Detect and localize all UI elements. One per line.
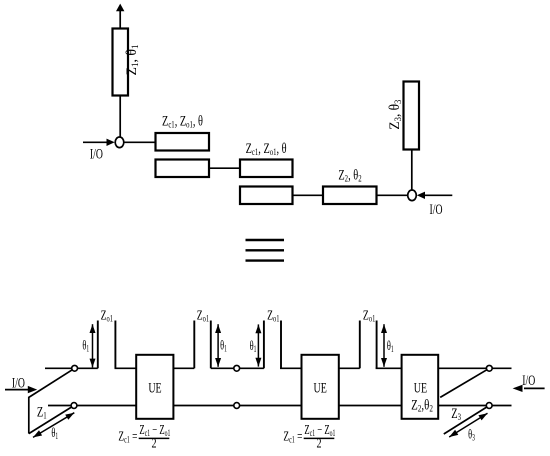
wire UE2 to stub no.7 — [339, 367, 360, 369]
theta1 length arrow (stub no.5) — [255, 324, 261, 366]
svg-text:Zc1, Zo1, θ: Zc1, Zo1, θ — [246, 140, 287, 157]
wire: top rail right segment — [438, 367, 511, 369]
svg-text:2: 2 — [151, 435, 156, 451]
open stub Zo1 no.6 (into UE2) — [280, 321, 302, 369]
port arrow at top of stub Z1 — [116, 4, 124, 29]
wire: bottom rail segment 4 — [438, 405, 511, 407]
svg-text:Zo1: Zo1 — [101, 308, 113, 324]
svg-text:Z3: Z3 — [451, 405, 461, 422]
svg-text:I/O: I/O — [522, 372, 535, 388]
svg-text:Z2, θ2: Z2, θ2 — [338, 167, 361, 184]
coupled line 1 lower conductor — [156, 160, 210, 178]
svg-text:θ3: θ3 — [468, 428, 475, 443]
wire node A to coupled line 1 — [124, 141, 156, 143]
wire line Z2 to output node — [377, 194, 408, 196]
svg-text:Zo1: Zo1 — [197, 308, 209, 324]
svg-text:θ1: θ1 — [51, 426, 58, 441]
svg-text:UE: UE — [314, 379, 327, 395]
output I/O arrow (top right) — [417, 192, 453, 199]
wire coupled line 2 to line Z2 — [293, 194, 324, 196]
node A: input junction circle — [115, 137, 124, 148]
svg-text:Z3, θ3: Z3, θ3 — [388, 99, 404, 129]
formula Zc1 = (Zc1 - Zo1)/2 (under UE1) — [118, 423, 170, 450]
svg-text:I/O: I/O — [90, 146, 103, 162]
coupled line 2 lower conductor — [240, 187, 293, 205]
coupled line 1 upper conductor — [156, 133, 210, 151]
theta3 length arrow (stub Z3) — [449, 413, 487, 437]
svg-text:Z1: Z1 — [37, 404, 47, 421]
unit element UE2 box — [302, 355, 339, 419]
wire: output fork diagonal from top rail — [440, 368, 489, 397]
wire UE1 to stub no.3 — [173, 367, 194, 369]
node circle (top rail middle) — [234, 365, 240, 371]
svg-text:Zc1 =: Zc1 = — [118, 427, 137, 444]
stub Z3 diagonal from bottom rail — [444, 406, 489, 435]
formula Zc1 = (Zc1 - Zo1)/2 (under UE2) — [283, 423, 335, 450]
node circle (bottom rail left) — [71, 403, 77, 409]
node circle (top rail right) — [486, 365, 492, 371]
unit element UE3 box — [402, 355, 439, 419]
wire: input fork vertical — [28, 397, 30, 434]
open stub Zo1 no.2 (into UE1) — [115, 321, 137, 369]
node B: output junction circle — [408, 190, 417, 201]
open stub Zo1 no.4 (at middle node) — [210, 321, 212, 369]
wire: input fork diagonal to top rail — [29, 368, 75, 397]
svg-text:θ1: θ1 — [82, 339, 89, 354]
svg-text:Zo1: Zo1 — [363, 308, 375, 324]
transmission-line stub Z1 (vertical rectangle) — [113, 29, 129, 96]
input I/O arrow (top left) — [83, 139, 115, 146]
theta1 length arrow (stub no.1) — [90, 324, 96, 367]
node circle (bottom rail middle) — [234, 403, 240, 409]
transmission-line stub Z3 (vertical rectangle) — [404, 82, 420, 150]
equivalence symbol (triple bar) — [246, 240, 285, 261]
open stub Zo1 no.8 (into UE3) — [376, 321, 402, 369]
node circle (bottom rail right) — [486, 403, 492, 409]
svg-text:I/O: I/O — [12, 374, 25, 390]
svg-text:UE: UE — [148, 379, 161, 395]
open stub Zo1 no.5 (at middle node) — [263, 321, 265, 369]
svg-text:I/O: I/O — [430, 201, 443, 217]
wire coupled line 1 to coupled line 2 — [209, 167, 240, 169]
theta1 length arrow (stub no.4) — [215, 324, 221, 367]
wire: top rail middle segment with node — [211, 367, 264, 369]
wire: bottom rail segment 3 — [339, 405, 402, 407]
wire stub Z1 to input node — [119, 96, 121, 139]
svg-text:2: 2 — [316, 435, 321, 451]
svg-text:θ1: θ1 — [220, 339, 227, 354]
node circle (top rail left) — [72, 365, 78, 371]
svg-text:Zc1, Zo1, θ: Zc1, Zo1, θ — [162, 113, 203, 130]
wire output node to stub Z3 — [411, 150, 413, 191]
transmission line Z2 (horizontal rectangle) — [323, 187, 377, 205]
svg-text:Zc1 =: Zc1 = — [283, 427, 302, 444]
svg-text:θ1: θ1 — [250, 339, 257, 354]
open stub Zo1 no.7 (from UE2) — [359, 321, 361, 369]
open stub Zo1 no.3 (from UE1) — [193, 321, 195, 369]
svg-text:Zo1: Zo1 — [267, 308, 279, 324]
input I/O arrow (bottom left) — [5, 386, 37, 393]
theta1 length arrow (stub Z1) — [33, 413, 74, 438]
coupled line 2 upper conductor — [240, 160, 293, 178]
theta1 length arrow (stub no.8) — [381, 324, 387, 367]
stub Z1 diagonal to bottom rail — [29, 406, 74, 434]
open stub Zo1 no.1 (at input node) — [97, 321, 99, 369]
unit element UE1 box — [136, 355, 173, 419]
wire: bottom rail segment 1 — [48, 405, 136, 407]
wire: top rail left segment — [45, 367, 98, 369]
wire: bottom rail segment 2 — [173, 405, 301, 407]
output I/O arrow (bottom right) — [513, 385, 545, 392]
svg-text:UE: UE — [414, 380, 427, 396]
svg-text:θ1: θ1 — [387, 339, 394, 354]
